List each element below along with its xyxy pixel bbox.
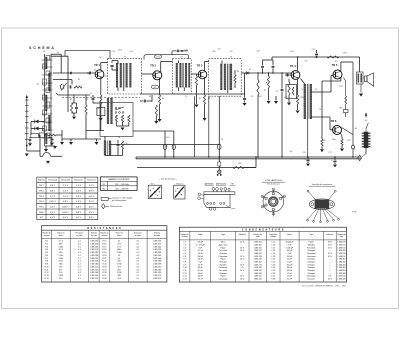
ground C12 bbox=[51, 141, 53, 142]
svg-text:R 22: R 22 bbox=[102, 261, 106, 263]
svg-text:0,1: 0,1 bbox=[137, 246, 140, 248]
svg-text:P 36: P 36 bbox=[352, 212, 357, 214]
svg-text:schéma: schéma bbox=[182, 236, 188, 238]
svg-text:0,1: 0,1 bbox=[78, 272, 81, 274]
wire TR4 emitter bbox=[297, 79, 299, 95]
capacitor C23 bus bbox=[315, 53, 318, 55]
svg-text:0,1: 0,1 bbox=[78, 246, 81, 248]
svg-text:R 2: R 2 bbox=[45, 243, 48, 245]
svg-text:C23: C23 bbox=[311, 49, 314, 51]
node junction bbox=[67, 72, 68, 73]
ground stub bbox=[275, 96, 277, 101]
svg-text:47: 47 bbox=[118, 241, 120, 243]
svg-text:C O N D E N S A T E U R S: C O N D E N S A T E U R S bbox=[242, 229, 284, 232]
svg-text:5,8 V: 5,8 V bbox=[89, 191, 95, 193]
svg-text:R 7: R 7 bbox=[45, 258, 48, 260]
socket ring 3 bbox=[271, 199, 276, 204]
T2 leads bbox=[178, 61, 180, 64]
svg-text:0,1: 0,1 bbox=[137, 252, 140, 254]
svg-text:10 %: 10 % bbox=[240, 270, 244, 272]
svg-text:0,35 V: 0,35 V bbox=[62, 206, 69, 208]
svg-text:1 486 114: 1 486 114 bbox=[337, 256, 345, 258]
wire second row bbox=[53, 79, 72, 81]
svg-text:5,6 V: 5,6 V bbox=[89, 196, 95, 198]
terminal A4 bbox=[220, 188, 222, 190]
capacitor C17 bbox=[144, 100, 146, 103]
svg-text:R19: R19 bbox=[343, 53, 346, 55]
ground column bbox=[45, 146, 47, 149]
capacitor C12 bbox=[51, 138, 54, 140]
svg-text:1,5 V: 1,5 V bbox=[76, 185, 82, 187]
svg-text:L8: L8 bbox=[118, 137, 120, 139]
transistor TR6 bbox=[333, 126, 342, 135]
svg-text:Chimique: Chimique bbox=[219, 253, 227, 255]
svg-text:1 485 192: 1 485 192 bbox=[90, 246, 98, 248]
choke coil CTN bbox=[364, 132, 369, 148]
IF transformer T3 shield box bbox=[209, 59, 242, 96]
svg-text:C 6: C 6 bbox=[183, 256, 186, 258]
svg-text:10 %: 10 % bbox=[240, 259, 244, 261]
svg-text:R 5: R 5 bbox=[45, 252, 48, 254]
svg-text:1 485 168: 1 485 168 bbox=[153, 261, 161, 263]
svg-text:1 500: 1 500 bbox=[58, 246, 63, 248]
svg-text:1 485 204: 1 485 204 bbox=[90, 241, 98, 243]
svg-text:0,1: 0,1 bbox=[78, 261, 81, 263]
svg-text:10 %: 10 % bbox=[328, 256, 332, 258]
svg-text:Papier: Papier bbox=[220, 276, 226, 278]
capacitor C18 bbox=[243, 98, 246, 100]
node R22 bbox=[255, 156, 256, 157]
svg-text:C25: C25 bbox=[229, 51, 232, 53]
svg-text:Réf. 1 574 038 — IMPRIMÉ EN FR: Réf. 1 574 038 — IMPRIMÉ EN FRANCE — PHO… bbox=[302, 285, 346, 288]
wire C14 bbox=[92, 95, 94, 98]
ground C25 bbox=[333, 165, 337, 168]
svg-text:10 %: 10 % bbox=[240, 247, 244, 249]
svg-text:1 486 408: 1 486 408 bbox=[337, 273, 345, 275]
ground TR4 emitter bbox=[296, 111, 300, 114]
T1 core bbox=[122, 63, 124, 88]
svg-text:0,1: 0,1 bbox=[78, 278, 81, 280]
resistances table bbox=[42, 226, 167, 282]
svg-text:C 11: C 11 bbox=[183, 270, 187, 272]
svg-text:1 486 350: 1 486 350 bbox=[254, 245, 262, 247]
svg-text:Chimique: Chimique bbox=[219, 262, 227, 264]
svg-text:2,5 %: 2,5 % bbox=[240, 242, 245, 244]
IF transformer T1 shield box bbox=[108, 59, 142, 94]
capacitor C16 bbox=[117, 144, 120, 146]
svg-text:1 486 104: 1 486 104 bbox=[254, 242, 262, 244]
svg-text:C28: C28 bbox=[256, 51, 259, 53]
legend chassis symbol bbox=[101, 197, 108, 200]
svg-text:TR 4: TR 4 bbox=[39, 201, 45, 203]
svg-text:4,5 V: 4,5 V bbox=[76, 217, 82, 219]
svg-text:1 485 156: 1 485 156 bbox=[153, 241, 161, 243]
svg-text:0,9 V: 0,9 V bbox=[50, 185, 56, 187]
svg-text:10: 10 bbox=[118, 258, 120, 260]
trimmer capacitor CT1 bbox=[61, 84, 63, 90]
wire emitter to box bbox=[100, 104, 102, 108]
T3 leads bbox=[221, 61, 223, 64]
node AGC bbox=[244, 93, 245, 94]
svg-text:1 485 228: 1 485 228 bbox=[90, 243, 98, 245]
ground R12 bbox=[155, 116, 157, 121]
svg-text:1 486 180: 1 486 180 bbox=[337, 247, 345, 249]
wire choke to bus bbox=[365, 148, 367, 154]
svg-text:Céramique: Céramique bbox=[307, 256, 316, 258]
svg-text:1,4 V: 1,4 V bbox=[76, 201, 82, 203]
svg-text:TR1: TR1 bbox=[103, 76, 106, 78]
svg-text:1 486 412: 1 486 412 bbox=[337, 259, 345, 261]
wire AGC left drop bbox=[30, 121, 32, 135]
svg-text:0,1: 0,1 bbox=[137, 278, 140, 280]
svg-text:40 000 pF: 40 000 pF bbox=[286, 242, 295, 244]
wire T4 bottom to bus bbox=[307, 119, 309, 157]
svg-text:R 10: R 10 bbox=[45, 266, 49, 268]
chassis top bar bbox=[204, 192, 235, 195]
wire coupling to TR4 bbox=[285, 74, 292, 76]
mechanical link dashed bbox=[62, 97, 140, 99]
svg-text:TR 3: TR 3 bbox=[39, 196, 45, 198]
svg-text:Type: Type bbox=[221, 234, 225, 236]
svg-text:Styroflex: Styroflex bbox=[220, 263, 227, 266]
svg-text:560: 560 bbox=[59, 252, 62, 254]
svg-text:0,65 V: 0,65 V bbox=[49, 201, 56, 203]
svg-text:e: e bbox=[176, 190, 177, 192]
CV1 section A bbox=[46, 56, 50, 61]
svg-text:R 1: R 1 bbox=[45, 241, 48, 243]
ground P2 bbox=[266, 101, 270, 104]
svg-text:P2: P2 bbox=[264, 90, 266, 92]
resistor R19 bus bbox=[327, 56, 339, 58]
wire lamp to switch bbox=[218, 150, 220, 163]
svg-text:Pol. métal.: Pol. métal. bbox=[219, 249, 228, 252]
svg-text:Repère: Repère bbox=[38, 179, 46, 182]
svg-text:1 486 210: 1 486 210 bbox=[254, 247, 262, 249]
wire antenna to coil L1 bbox=[26, 146, 28, 151]
wire R16 to bus bbox=[257, 95, 259, 157]
svg-text:2 200: 2 200 bbox=[58, 255, 63, 257]
svg-text:de l'alimentation: de l'alimentation bbox=[112, 199, 126, 202]
svg-text:—: — bbox=[329, 250, 331, 252]
wire osc internals bbox=[115, 122, 117, 126]
trimmer C9 bbox=[43, 126, 47, 131]
resistor R8 bbox=[121, 115, 123, 122]
wire T3 secondary return bbox=[194, 96, 196, 157]
svg-text:2 000 pF: 2 000 pF bbox=[286, 247, 294, 249]
svg-text:Semelle de connexions: Semelle de connexions bbox=[312, 184, 333, 186]
svg-text:1015: 1015 bbox=[156, 57, 160, 59]
svg-text:schéma: schéma bbox=[270, 236, 276, 238]
svg-text:1 485 204: 1 485 204 bbox=[153, 246, 161, 248]
svg-text:0,8 V: 0,8 V bbox=[76, 212, 82, 214]
wire TR5 collector bbox=[340, 62, 342, 71]
wire R22 to bus bbox=[244, 167, 256, 169]
semelle pin 5 bbox=[324, 209, 333, 220]
svg-text:R 4: R 4 bbox=[45, 249, 48, 251]
svg-text:1 486 214: 1 486 214 bbox=[254, 264, 262, 266]
capacitor C31 bbox=[176, 50, 178, 53]
capacitor C22 coupling bbox=[286, 74, 288, 77]
svg-text:Papier: Papier bbox=[309, 242, 315, 244]
svg-text:R3: R3 bbox=[149, 96, 151, 98]
svg-text:C 7: C 7 bbox=[183, 259, 186, 261]
svg-text:TR 4: TR 4 bbox=[290, 64, 296, 68]
svg-text:10 %: 10 % bbox=[328, 247, 332, 249]
svg-text:R 17: R 17 bbox=[102, 246, 106, 248]
capacitor C24 electrolytic bbox=[307, 159, 310, 161]
svg-text:C 18: C 18 bbox=[271, 250, 275, 252]
svg-text:R 15: R 15 bbox=[102, 241, 106, 243]
svg-text:4,5 V: 4,5 V bbox=[63, 217, 69, 219]
svg-text:0,7 V: 0,7 V bbox=[50, 196, 56, 198]
wire TR5 emitter branch bbox=[344, 78, 346, 82]
svg-text:2 x 270 pF: 2 x 270 pF bbox=[196, 245, 205, 247]
wire C17 bbox=[140, 100, 144, 102]
svg-text:C 3: C 3 bbox=[183, 247, 186, 249]
svg-text:R2: R2 bbox=[70, 99, 72, 101]
ground R21 bbox=[321, 146, 323, 149]
coil tap bbox=[46, 88, 50, 93]
node bus joints bbox=[307, 156, 309, 158]
thermistor GE mark bbox=[344, 110, 349, 113]
svg-text:Chimique: Chimique bbox=[307, 259, 315, 261]
resistor R3 bbox=[85, 105, 87, 114]
coil L3 winding bbox=[45, 95, 47, 111]
svg-text:1 485 210: 1 485 210 bbox=[90, 249, 98, 251]
wire filament line bbox=[109, 144, 219, 146]
svg-text:C16: C16 bbox=[124, 143, 127, 145]
wire node to TR1 row bbox=[53, 72, 95, 74]
svg-text:R6: R6 bbox=[162, 98, 164, 100]
svg-text:Type: Type bbox=[309, 234, 313, 236]
semelle lead up-right bbox=[329, 192, 335, 200]
svg-text:330: 330 bbox=[118, 275, 121, 277]
svg-text:1 485 184: 1 485 184 bbox=[90, 264, 98, 266]
svg-text:C 14: C 14 bbox=[183, 278, 187, 280]
wire R2/R3 top rail bbox=[58, 94, 90, 96]
resistor R22 bbox=[233, 166, 244, 168]
svg-text:1,2 V: 1,2 V bbox=[63, 185, 69, 187]
svg-text:0,1: 0,1 bbox=[137, 241, 140, 243]
svg-text:e: e bbox=[150, 191, 151, 193]
svg-text:0,9 V: 0,9 V bbox=[63, 201, 69, 203]
svg-text:22 k: 22 k bbox=[59, 278, 63, 280]
svg-text:en watts: en watts bbox=[135, 234, 141, 237]
wire osc coil top bbox=[104, 136, 106, 140]
resistor R17 TR4 emitter bbox=[297, 95, 299, 104]
wire speaker ground bbox=[360, 84, 362, 93]
svg-text:C 15: C 15 bbox=[271, 242, 275, 244]
svg-text:150: 150 bbox=[118, 261, 121, 263]
svg-text:Céramique: Céramique bbox=[219, 267, 228, 269]
capacitor C25 electrolytic bbox=[334, 160, 337, 162]
T4 secondary bbox=[310, 84, 312, 119]
svg-text:1,9 V: 1,9 V bbox=[76, 196, 82, 198]
wire ground rail bbox=[62, 138, 101, 140]
svg-text:130 pF: 130 pF bbox=[197, 242, 203, 244]
trimmer C6 bbox=[46, 102, 50, 108]
svg-text:C 27: C 27 bbox=[271, 276, 275, 278]
wire TR1 emitter bbox=[100, 77, 102, 95]
semelle oval bbox=[309, 199, 334, 210]
svg-text:4,7 nF: 4,7 nF bbox=[198, 278, 204, 280]
svg-text:R13: R13 bbox=[339, 86, 342, 88]
svg-text:1 200: 1 200 bbox=[117, 272, 122, 274]
capacitor C11b bbox=[70, 72, 72, 74]
svg-text:1 485 186: 1 485 186 bbox=[153, 269, 161, 271]
jack prongs bbox=[217, 174, 219, 176]
svg-text:ECL: ECL bbox=[166, 137, 170, 139]
semelle pin 6 bbox=[326, 209, 339, 219]
diode D3 bbox=[35, 127, 39, 131]
svg-text:2 700: 2 700 bbox=[117, 264, 122, 266]
wire T1 to TR2 base bbox=[142, 73, 154, 75]
wire TR2 collector bbox=[160, 62, 162, 73]
svg-text:D1: D1 bbox=[249, 69, 251, 71]
svg-text:C 4: C 4 bbox=[183, 250, 186, 252]
wire TR5 emitter bbox=[340, 78, 342, 81]
svg-text:5,2 V: 5,2 V bbox=[89, 201, 95, 203]
svg-text:1 485 188: 1 485 188 bbox=[153, 252, 161, 254]
svg-text:1 485 218: 1 485 218 bbox=[153, 278, 161, 280]
svg-text:TR 1: TR 1 bbox=[94, 63, 100, 67]
svg-text:10 %: 10 % bbox=[240, 256, 244, 258]
svg-text:0,1: 0,1 bbox=[78, 266, 81, 268]
coil taps bbox=[42, 59, 53, 61]
pilot lamp LP3 bbox=[218, 144, 221, 149]
svg-text:0,1: 0,1 bbox=[137, 266, 140, 268]
svg-text:1 485 182: 1 485 182 bbox=[90, 252, 98, 254]
svg-text:Céramique: Céramique bbox=[307, 276, 316, 278]
svg-text:(B): (B) bbox=[290, 151, 293, 153]
svg-text:Styroflex: Styroflex bbox=[308, 244, 315, 247]
svg-text:R3: R3 bbox=[86, 99, 88, 101]
svg-text:0,2 V: 0,2 V bbox=[50, 206, 56, 208]
svg-text:1 486 242: 1 486 242 bbox=[254, 270, 262, 272]
svg-text:Chimique: Chimique bbox=[307, 270, 315, 272]
svg-text:R 11: R 11 bbox=[45, 269, 49, 271]
svg-text:TR6e: TR6e bbox=[332, 139, 336, 141]
ground rail 3 bbox=[94, 142, 98, 145]
svg-text:ohms: ohms bbox=[117, 235, 121, 237]
svg-text:b: b bbox=[181, 194, 182, 196]
chassis rear panel bbox=[204, 194, 230, 207]
svg-text:C 26: C 26 bbox=[271, 273, 275, 275]
svg-text:Décount.: Décount. bbox=[308, 277, 316, 280]
wire TR4 collector to bus bbox=[297, 57, 299, 71]
svg-text:1 485 208: 1 485 208 bbox=[90, 261, 98, 263]
ground speaker bbox=[359, 94, 363, 97]
svg-text:100 µF: 100 µF bbox=[287, 270, 294, 272]
wire T3 lead to bus bbox=[208, 96, 210, 157]
coil L4b winding bbox=[45, 133, 47, 144]
svg-text:Chimique: Chimique bbox=[307, 262, 315, 264]
svg-text:T4: T4 bbox=[319, 109, 321, 111]
socket pin 2 bbox=[280, 197, 282, 199]
svg-text:C 13: C 13 bbox=[183, 276, 187, 278]
svg-text:R12: R12 bbox=[300, 97, 303, 99]
svg-text:schéma: schéma bbox=[101, 235, 107, 237]
T5 winding marks bbox=[358, 74, 360, 83]
svg-text:1 486 226: 1 486 226 bbox=[337, 242, 345, 244]
svg-text:4,5 V: 4,5 V bbox=[50, 217, 56, 219]
svg-text:C19: C19 bbox=[176, 51, 179, 53]
svg-text:5 %: 5 % bbox=[328, 276, 331, 278]
wire T5 to speaker bbox=[363, 77, 364, 79]
svg-text:4,5 V: 4,5 V bbox=[89, 212, 95, 214]
svg-text:C5: C5 bbox=[185, 96, 187, 98]
svg-text:TR 1: TR 1 bbox=[39, 185, 45, 187]
ground TR1 emitter bbox=[100, 104, 102, 118]
wire to jack bbox=[218, 166, 220, 170]
svg-text:R 12: R 12 bbox=[45, 272, 49, 274]
svg-text:1 485 140: 1 485 140 bbox=[153, 258, 161, 260]
svg-text:1 000: 1 000 bbox=[117, 252, 122, 254]
svg-text:R 6: R 6 bbox=[45, 255, 48, 257]
svg-text:1 486 404: 1 486 404 bbox=[337, 262, 345, 264]
gammes couvertes table bbox=[100, 177, 137, 191]
svg-text:—: — bbox=[241, 253, 243, 255]
wire rail stubs bbox=[61, 139, 63, 142]
svg-text:C12: C12 bbox=[98, 57, 101, 59]
capacitor C14 bbox=[92, 98, 95, 100]
svg-text:TR 5: TR 5 bbox=[332, 63, 338, 67]
svg-text:0,8 V: 0,8 V bbox=[50, 191, 56, 193]
wire leader left bbox=[201, 194, 204, 195]
svg-text:Ajust. mica: Ajust. mica bbox=[219, 244, 228, 247]
svg-text:0,1: 0,1 bbox=[137, 249, 140, 251]
transistor TR3 bbox=[198, 70, 207, 79]
connector ring bbox=[352, 145, 355, 149]
ground column2 bbox=[53, 146, 57, 149]
node C31 bbox=[181, 50, 183, 52]
svg-text:1 486 420: 1 486 420 bbox=[337, 264, 345, 266]
svg-text:R 24: R 24 bbox=[102, 266, 106, 268]
svg-text:—: — bbox=[241, 262, 243, 264]
terminal left L2 bbox=[198, 197, 201, 200]
capacitor C13 bbox=[29, 139, 32, 141]
wire AVC top bbox=[263, 59, 274, 61]
svg-text:1 486 226: 1 486 226 bbox=[254, 276, 262, 278]
svg-text:C 17: C 17 bbox=[271, 247, 275, 249]
resistor R12 bbox=[155, 105, 157, 116]
svg-text:C 12: C 12 bbox=[183, 273, 187, 275]
resistor R18 bias bbox=[288, 82, 290, 95]
svg-text:Raccord à clé: Raccord à clé bbox=[110, 206, 123, 208]
capacitor C30 bbox=[75, 107, 78, 109]
dial lamp LP1 bbox=[163, 145, 166, 150]
svg-text:C1: C1 bbox=[43, 51, 45, 53]
svg-text:C6: C6 bbox=[251, 96, 253, 98]
jack J1 bbox=[218, 170, 221, 173]
resistor R15 in T3 bbox=[234, 75, 236, 83]
svg-text:1,0 V: 1,0 V bbox=[63, 196, 69, 198]
svg-text:0,1: 0,1 bbox=[78, 275, 81, 277]
volume control box bbox=[286, 85, 297, 99]
svg-text:—: — bbox=[241, 245, 243, 247]
trimmer C3 bbox=[46, 71, 50, 75]
svg-text:10: 10 bbox=[118, 255, 120, 257]
svg-text:Tension B: Tension B bbox=[61, 180, 71, 182]
svg-text:C 10: C 10 bbox=[183, 267, 187, 269]
driver transformer T4 primary bbox=[304, 84, 306, 119]
svg-text:1 486 226: 1 486 226 bbox=[254, 259, 262, 261]
svg-text:R5: R5 bbox=[151, 101, 153, 103]
resistor R9 bbox=[128, 115, 130, 122]
svg-text:1 485 216: 1 485 216 bbox=[153, 243, 161, 245]
semelle pin 1 bbox=[308, 209, 318, 220]
wire R3 bbox=[85, 95, 87, 105]
